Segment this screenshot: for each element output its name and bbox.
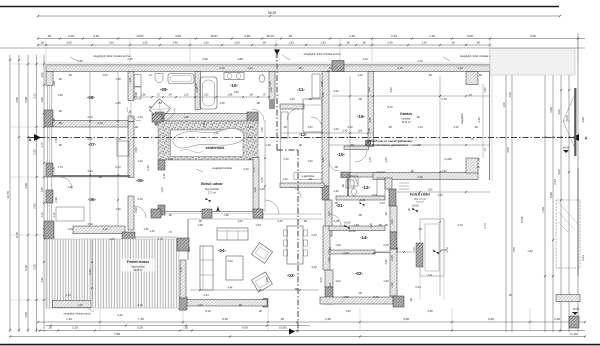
wall 15|13 divider [341, 173, 385, 178]
svg-text:burkolva: burkolva [402, 118, 411, 121]
washer column room 09 [134, 75, 141, 87]
svg-text:fdgy burkolat: fdgy burkolat [414, 198, 427, 201]
living west wall piece [180, 260, 186, 298]
svg-text:1,38: 1,38 [52, 81, 56, 87]
svg-text:zöldfelület: zöldfelület [206, 146, 226, 150]
svg-text:4,50: 4,50 [321, 92, 325, 98]
svg-text:4,40: 4,40 [389, 87, 393, 93]
svg-text:+0,30: +0,30 [359, 199, 366, 202]
annotation terrace bottom [88, 308, 94, 312]
svg-text:2,98: 2,98 [202, 57, 208, 61]
section line B vertical [276, 52, 278, 150]
svg-text:-90: -90 [58, 143, 62, 147]
right dimension chains [505, 64, 507, 332]
svg-text:-90: -90 [358, 291, 362, 295]
svg-text:±0,00: ±0,00 [563, 146, 570, 150]
svg-text:5,00: 5,00 [467, 34, 473, 38]
entry steps [399, 182, 409, 184]
exterior wall top main [46, 65, 338, 72]
wardrobe room 06 [56, 207, 84, 221]
svg-text:3,02: 3,02 [335, 279, 341, 283]
svg-text:4,40: 4,40 [477, 117, 481, 123]
svg-text:1,38: 1,38 [369, 223, 373, 229]
svg-text:17,1 m²: 17,1 m² [208, 192, 216, 195]
svg-text:2,40: 2,40 [441, 97, 447, 101]
svg-text:1,20: 1,20 [289, 97, 295, 101]
dining table room 03 [287, 226, 303, 264]
left dimension chains [9, 55, 11, 332]
section line A-A [28, 137, 578, 139]
room 12 bed [303, 99, 322, 132]
svg-text:,30: ,30 [184, 325, 188, 329]
svg-text:39,86 m²: 39,86 m² [133, 269, 142, 272]
svg-text:16,29: 16,29 [266, 34, 274, 38]
gate arrow glyph [563, 95, 575, 147]
svg-text:-90: -90 [410, 169, 414, 173]
svg-text:3,00: 3,00 [549, 107, 553, 113]
courtyard south pillar 3 [253, 209, 263, 218]
garage south wall [373, 173, 478, 180]
room 13 fixtures [350, 176, 358, 186]
tub room 09 top [168, 74, 194, 84]
svg-text:-60: -60 [328, 66, 332, 70]
left wall segment 3 [46, 190, 53, 203]
svg-text:2,90: 2,90 [33, 203, 37, 209]
svg-text:2,20: 2,20 [117, 313, 123, 317]
svg-text:10,97: 10,97 [210, 34, 218, 38]
svg-text:,30: ,30 [40, 40, 44, 44]
svg-text:-72: -72 [148, 73, 152, 77]
svg-text:-90: -90 [148, 105, 152, 109]
svg-text:14,70: 14,70 [6, 191, 10, 199]
svg-text:2,00: 2,00 [68, 34, 74, 38]
svg-text:3,00: 3,00 [175, 34, 181, 38]
svg-text:1,34: 1,34 [214, 132, 219, 135]
svg-text:3,21: 3,21 [581, 255, 585, 261]
svg-text:2,16: 2,16 [219, 66, 225, 70]
svg-text:1,20: 1,20 [67, 185, 73, 189]
wall 16|garage [368, 72, 374, 147]
exterior wall top garage [338, 65, 490, 72]
svg-text:2,40: 2,40 [397, 66, 403, 70]
svg-text:3,00: 3,00 [506, 147, 510, 153]
svg-text:56,29: 56,29 [268, 11, 276, 15]
svg-text:1,00: 1,00 [234, 40, 240, 44]
room 12 wardrobe [281, 112, 288, 138]
svg-text:1,63: 1,63 [384, 157, 388, 163]
svg-text:1,75: 1,75 [57, 165, 63, 169]
wall 01|14 divider [329, 226, 385, 231]
room 12 west line [280, 109, 282, 183]
annotation top middle [282, 55, 290, 60]
left wall segment 2 [46, 163, 53, 177]
svg-text:2,18: 2,18 [72, 325, 78, 329]
corridor to 01 line [263, 213, 322, 215]
svg-text:1,50: 1,50 [108, 40, 114, 44]
svg-text:-07-: -07- [88, 142, 97, 147]
svg-text:1,40: 1,40 [143, 227, 149, 231]
svg-text:-08-: -08- [87, 95, 96, 100]
svg-text:1,50: 1,50 [345, 309, 351, 313]
svg-text:1,38: 1,38 [197, 223, 203, 227]
svg-text:1,50: 1,50 [102, 73, 108, 77]
svg-text:7,00: 7,00 [541, 207, 545, 213]
svg-text:1,20: 1,20 [137, 115, 143, 119]
svg-text:2,40: 2,40 [243, 167, 249, 171]
courtyard east wall [253, 158, 259, 211]
svg-text:2,10: 2,10 [115, 165, 121, 169]
eaves line garage east [491, 63, 493, 182]
sink room 09 [155, 74, 163, 83]
svg-text:-1,38: -1,38 [333, 219, 340, 223]
svg-text:1,38: 1,38 [353, 223, 359, 227]
planter inner wavy line [180, 150, 204, 153]
svg-text:±0,00: ±0,00 [573, 307, 580, 311]
svg-text:2,40: 2,40 [417, 59, 423, 63]
svg-text:4,44: 4,44 [228, 287, 233, 290]
chain y252 eloter [397, 251, 412, 253]
svg-text:-16-: -16- [357, 114, 366, 119]
svg-text:-30: -30 [508, 293, 512, 297]
svg-text:1,20: 1,20 [421, 40, 427, 44]
svg-text:-02-: -02- [355, 271, 364, 276]
chain room 08/07/06 x90 [89, 72, 91, 226]
terrace NW corner block [122, 232, 135, 246]
svg-text:1,63: 1,63 [255, 223, 261, 227]
svg-text:4,38: 4,38 [244, 34, 250, 38]
north arrow courtyard [216, 206, 220, 212]
section line A-A overlay [28, 137, 578, 139]
bottom chain line 3 [38, 330, 585, 332]
svg-text:1,10: 1,10 [247, 125, 253, 129]
svg-text:1,20: 1,20 [247, 66, 253, 70]
svg-text:-90: -90 [283, 125, 287, 129]
svg-text:1,36: 1,36 [260, 127, 264, 133]
svg-text:1,38: 1,38 [183, 115, 189, 119]
svg-text:-90: -90 [198, 219, 202, 223]
desk room 07 [117, 141, 129, 156]
svg-text:1,00: 1,00 [128, 77, 132, 83]
svg-text:1,50: 1,50 [77, 59, 83, 63]
bottom chain line 4 [10, 336, 585, 338]
svg-text:,60: ,60 [362, 40, 366, 44]
svg-text:-30: -30 [409, 298, 413, 302]
svg-text:2,40: 2,40 [343, 251, 349, 255]
wall 16|15 divider [344, 146, 369, 150]
svg-text:1,70: 1,70 [157, 237, 163, 241]
svg-text:1,63: 1,63 [321, 157, 325, 163]
wall step garage NE [466, 72, 478, 85]
window left room 06 [46, 203, 48, 221]
svg-text:2,40: 2,40 [328, 247, 332, 253]
svg-text:1,20: 1,20 [203, 40, 209, 44]
chain garage y96 [332, 95, 490, 97]
svg-text:1,75: 1,75 [52, 167, 56, 173]
garage east door line [489, 72, 491, 181]
svg-text:3,00: 3,00 [557, 109, 561, 115]
svg-text:7,00: 7,00 [512, 247, 516, 253]
svg-text:2,16: 2,16 [102, 227, 108, 231]
svg-text:1,63: 1,63 [371, 193, 377, 197]
svg-text:2,40: 2,40 [349, 34, 355, 38]
svg-text:6,44: 6,44 [415, 285, 421, 289]
svg-text:3,02: 3,02 [319, 277, 323, 283]
svg-text:3,93: 3,93 [87, 222, 93, 226]
svg-text:1,10: 1,10 [66, 317, 72, 321]
svg-text:5,20: 5,20 [227, 259, 233, 263]
south wall east block [320, 297, 393, 304]
wall room 11 west lower stub [269, 99, 275, 109]
annotation top right [443, 57, 450, 61]
svg-text:2,73: 2,73 [445, 247, 449, 253]
svg-text:4,40: 4,40 [93, 34, 99, 38]
living north glazing [188, 218, 323, 220]
svg-text:2,73: 2,73 [395, 247, 399, 253]
svg-text:(10): (10) [358, 130, 362, 133]
svg-text:2,40: 2,40 [347, 125, 353, 129]
svg-text:7,58: 7,58 [114, 332, 120, 336]
window left 07/06 [46, 177, 48, 190]
svg-text:Fedett előtér: Fedett előtér [410, 193, 431, 197]
svg-text:-90: -90 [308, 177, 312, 181]
svg-text:1,00: 1,00 [367, 87, 371, 93]
svg-text:6,00: 6,00 [488, 317, 494, 321]
double sink room 10 [224, 73, 244, 80]
svg-text:9,70: 9,70 [15, 232, 19, 238]
svg-text:-60: -60 [350, 143, 354, 147]
bottom extension leaders [99, 308, 101, 330]
svg-text:4,50: 4,50 [333, 89, 339, 93]
svg-text:-06-: -06- [88, 197, 97, 202]
svg-text:1,90: 1,90 [40, 277, 44, 283]
sofa living room [217, 228, 248, 240]
svg-text:5,40: 5,40 [387, 105, 393, 109]
svg-text:fdgy burkolat: fdgy burkolat [131, 266, 145, 269]
svg-text:1,50: 1,50 [219, 101, 225, 105]
spine wall lower (01 west) [322, 186, 329, 200]
svg-text:-90: -90 [238, 303, 242, 307]
svg-text:-90: -90 [341, 184, 345, 188]
wall 09|10 [195, 72, 201, 110]
rotated shower room 09 [149, 99, 170, 120]
svg-text:-90: -90 [298, 143, 302, 147]
svg-text:1,20: 1,20 [137, 159, 143, 163]
interior wall x128 upper (08|09) [128, 72, 134, 101]
svg-text:-14-: -14- [360, 235, 369, 240]
top border line [0, 6, 559, 8]
svg-text:1,00: 1,00 [565, 115, 569, 121]
terrace north edge line [135, 236, 177, 238]
svg-text:2,50: 2,50 [33, 149, 37, 155]
bottom chain line 2 [45, 325, 310, 327]
svg-text:-09-: -09- [160, 87, 169, 92]
L sofa living room [200, 246, 213, 290]
svg-text:-90: -90 [358, 213, 362, 217]
chimney block [366, 141, 371, 146]
living SW corner block [179, 297, 187, 310]
door arcs [127, 107, 141, 121]
wall 12|13 divider [280, 183, 324, 188]
svg-text:-30: -30 [418, 227, 422, 231]
svg-text:1,00: 1,00 [508, 92, 512, 98]
svg-text:1,13: 1,13 [52, 212, 56, 218]
svg-text:-90: -90 [68, 73, 72, 77]
bathtub room 10 [200, 77, 217, 109]
svg-text:-90: -90 [58, 77, 62, 81]
svg-text:3,68: 3,68 [403, 317, 409, 321]
window left room 07 [46, 127, 48, 163]
Fedett terasz label [121, 259, 155, 272]
svg-text:3,13: 3,13 [33, 93, 37, 99]
svg-text:1,40: 1,40 [77, 303, 83, 307]
svg-text:2,40: 2,40 [283, 157, 289, 161]
left extension leaders [10, 63, 46, 65]
svg-text:szegélykő, fehérje szórva: szegélykő, fehérje szórva [64, 313, 92, 316]
interior wall x128 lower (05 west) [128, 122, 134, 178]
svg-text:1,90: 1,90 [265, 277, 269, 283]
svg-text:1,21: 1,21 [427, 273, 433, 277]
svg-text:,30: ,30 [288, 34, 293, 38]
svg-text:,10: ,10 [48, 325, 52, 329]
svg-text:-12-: -12- [299, 132, 308, 137]
svg-text:-90: -90 [334, 165, 338, 169]
svg-text:1,10: 1,10 [457, 66, 463, 70]
window left room 08 [46, 85, 48, 110]
chain courtyard x265 [264, 120, 266, 212]
planter corner block west [155, 112, 164, 125]
armchair 2 [252, 272, 273, 292]
svg-text:1,30: 1,30 [320, 40, 326, 44]
spot elevation room 13 [360, 202, 365, 207]
svg-text:-60: -60 [474, 125, 478, 129]
svg-text:2,98: 2,98 [320, 81, 324, 87]
svg-text:1,00: 1,00 [335, 243, 341, 247]
svg-text:3,25: 3,25 [33, 264, 37, 270]
svg-text:-90: -90 [358, 97, 362, 101]
svg-text:-90: -90 [367, 128, 371, 132]
svg-text:1,63: 1,63 [197, 303, 203, 307]
svg-text:1,10: 1,10 [429, 34, 435, 38]
svg-text:-15-: -15- [337, 152, 346, 157]
svg-text:1,20: 1,20 [362, 57, 368, 61]
living west glazing [187, 219, 189, 260]
svg-text:A: A [584, 136, 587, 141]
svg-text:(3,50): (3,50) [279, 325, 287, 329]
planter pebble frame [158, 121, 258, 160]
east exterior wall south block [390, 206, 397, 232]
svg-text:pm40: pm40 [413, 143, 420, 147]
svg-text:2,90: 2,90 [54, 197, 58, 203]
svg-text:1,88: 1,88 [237, 57, 243, 61]
svg-text:+0,30: +0,30 [344, 221, 351, 225]
walkway leaders to bottom dims [419, 276, 421, 300]
svg-text:-03-: -03- [287, 273, 296, 278]
corner wall stub room 09 [152, 114, 162, 122]
svg-text:3,02: 3,02 [328, 282, 332, 288]
svg-text:-50: -50 [478, 73, 482, 77]
top overall dimension 56,29 [38, 15, 560, 17]
svg-text:-90: -90 [248, 157, 252, 161]
svg-text:1,40: 1,40 [172, 40, 178, 44]
svg-text:2,40: 2,40 [343, 130, 348, 133]
coffee table [226, 256, 243, 280]
walkway spot elevation [433, 249, 438, 254]
annotation courtyard [196, 169, 203, 172]
svg-text:1,25: 1,25 [40, 187, 44, 193]
courtyard south line [150, 211, 263, 213]
courtyard west pillar 2 [158, 205, 165, 215]
svg-text:pm99: pm99 [445, 157, 452, 161]
svg-text:szegélykő burkolat: szegélykő burkolat [212, 167, 232, 170]
svg-text:1,20: 1,20 [160, 187, 164, 193]
south wall dark block SE [393, 296, 404, 307]
svg-text:1,38: 1,38 [223, 213, 229, 217]
svg-text:2,40: 2,40 [453, 125, 459, 129]
svg-text:1,75: 1,75 [40, 142, 44, 148]
fence piece right south [556, 200, 580, 268]
terrace NW pillar [177, 238, 189, 251]
svg-text:1,20: 1,20 [357, 73, 363, 77]
svg-text:-72: -72 [168, 230, 172, 234]
svg-text:1,63: 1,63 [379, 201, 385, 205]
svg-text:3,93: 3,93 [87, 169, 93, 173]
svg-text:2,73: 2,73 [412, 247, 416, 253]
svg-text:1,50: 1,50 [441, 169, 447, 173]
chain terrace x92 y272 [91, 240, 93, 300]
svg-text:-70: -70 [468, 93, 472, 97]
svg-text:-90: -90 [428, 73, 432, 77]
right bottom marks [572, 312, 578, 315]
WC room 10 [259, 75, 264, 83]
svg-text:1,50: 1,50 [325, 317, 331, 321]
svg-text:-90: -90 [256, 101, 260, 105]
svg-text:-90: -90 [372, 251, 376, 255]
svg-text:1,40: 1,40 [65, 293, 71, 297]
svg-text:6,70 m²: 6,70 m² [416, 201, 424, 204]
svg-text:1,36: 1,36 [202, 122, 206, 128]
svg-text:1,90: 1,90 [383, 279, 389, 283]
terrace decking [46, 239, 179, 308]
fence small piece far SE [556, 295, 580, 302]
svg-text:1,20: 1,20 [288, 40, 294, 44]
svg-text:-84: -84 [158, 101, 162, 105]
svg-text:2,85: 2,85 [115, 101, 121, 105]
svg-text:2,40: 2,40 [311, 233, 317, 237]
svg-text:2,90: 2,90 [134, 207, 138, 213]
svg-text:2,40: 2,40 [137, 197, 143, 201]
svg-text:,90: ,90 [262, 40, 266, 44]
svg-text:1,20: 1,20 [368, 157, 372, 163]
room 13 shower [346, 180, 354, 188]
svg-text:,30: ,30 [280, 317, 285, 321]
svg-text:3,68: 3,68 [427, 309, 433, 313]
svg-text:2,50: 2,50 [134, 147, 138, 153]
property line upper [0, 47, 585, 49]
svg-text:-04-: -04- [218, 248, 227, 253]
svg-text:+0,30: +0,30 [349, 229, 356, 233]
svg-text:3,00: 3,00 [557, 169, 561, 175]
svg-text:(1,16): (1,16) [570, 332, 578, 336]
svg-text:2,40: 2,40 [391, 34, 397, 38]
svg-text:1,10: 1,10 [417, 125, 423, 129]
room 06 south wall [73, 226, 125, 234]
svg-text:2,40: 2,40 [260, 177, 264, 183]
svg-text:1,63: 1,63 [237, 219, 243, 223]
svg-text:,90: ,90 [451, 40, 455, 44]
svg-text:2,00: 2,00 [66, 40, 72, 44]
east walkway outline [420, 219, 444, 276]
svg-text:-90: -90 [52, 118, 56, 122]
